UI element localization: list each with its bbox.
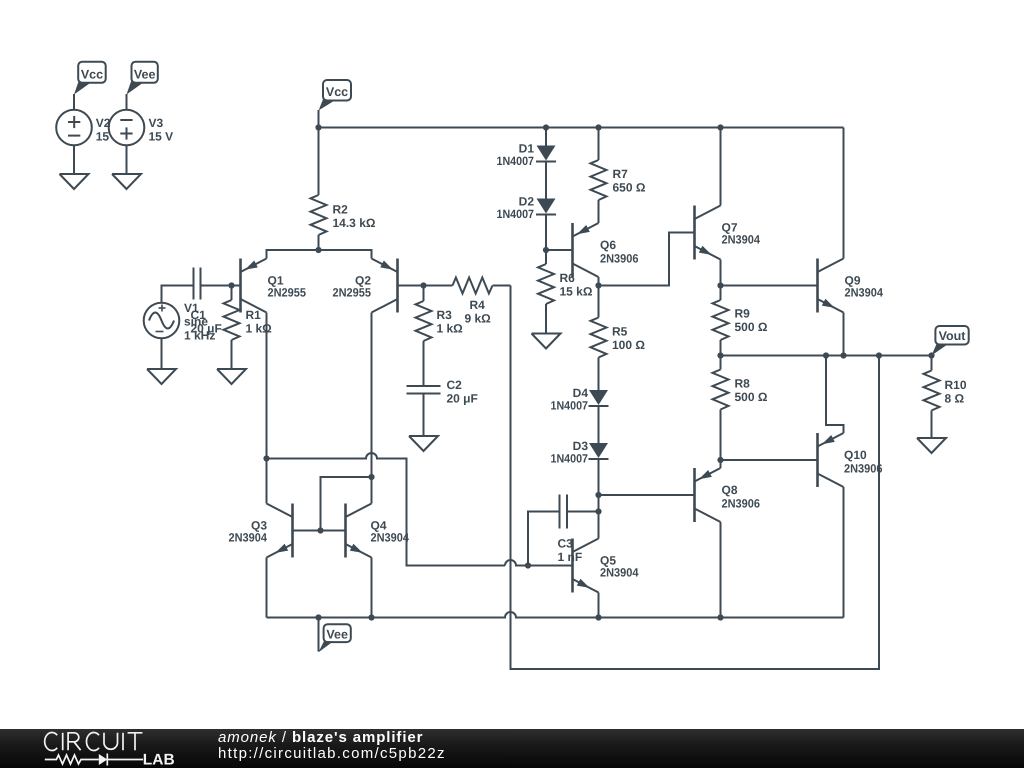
node junction: Q5 emitter/Vee rail bbox=[595, 614, 601, 620]
resistor R2 bbox=[311, 128, 327, 251]
resistor R8 bbox=[713, 356, 729, 461]
wire Q6 collector riser bbox=[598, 277, 600, 286]
svg-text:2N3904: 2N3904 bbox=[229, 531, 268, 545]
svg-text:C1: C1 bbox=[191, 308, 207, 322]
svg-text:R2: R2 bbox=[333, 203, 349, 217]
svg-text:1N4007: 1N4007 bbox=[497, 207, 535, 221]
svg-text:2N3906: 2N3906 bbox=[844, 462, 883, 476]
node junction: Q9 emitter/output bbox=[840, 352, 846, 358]
svg-text:R1: R1 bbox=[246, 308, 262, 322]
resistor R9 bbox=[713, 286, 729, 356]
node junction: C3 right plate tie bbox=[595, 508, 601, 514]
node junction: feedback/output bbox=[876, 352, 882, 358]
svg-text:2N3904: 2N3904 bbox=[722, 233, 761, 247]
node junction: Q4 collector tie bbox=[368, 474, 374, 480]
svg-text:1N4007: 1N4007 bbox=[551, 398, 589, 412]
wire D2 to R6/Q6 base bbox=[545, 215, 547, 251]
transistor Q5 (NPN 2N3904) bbox=[573, 539, 599, 593]
net flag Vout bbox=[932, 326, 969, 356]
svg-text:1 kΩ: 1 kΩ bbox=[437, 322, 464, 336]
svg-text:Q6: Q6 bbox=[600, 238, 616, 252]
transistor Q2 (PNP 2N2955) bbox=[372, 259, 398, 313]
resistor R6 bbox=[538, 250, 554, 334]
node junction: Q6 collector/R5 bbox=[595, 282, 601, 288]
svg-text:R10: R10 bbox=[945, 378, 967, 392]
node junction: Q2 base/R3/R4 bbox=[420, 282, 426, 288]
svg-text:500 Ω: 500 Ω bbox=[735, 320, 768, 334]
wire Q6 base bbox=[546, 249, 573, 251]
svg-text:8 Ω: 8 Ω bbox=[945, 392, 965, 406]
ground (below R10) bbox=[917, 438, 946, 453]
svg-text:C3: C3 bbox=[558, 537, 574, 551]
wire Q1-Q2 emitter rail bbox=[267, 250, 372, 259]
wire V3 top lead bbox=[126, 94, 128, 110]
node junction: Vout flag/R10 bbox=[928, 352, 934, 358]
resistor R5 bbox=[591, 286, 607, 391]
ground (below R1) bbox=[217, 369, 246, 384]
voltage source V3 bbox=[109, 110, 145, 146]
wire V1 bottom lead bbox=[161, 338, 163, 369]
wire Q8 collector riser bbox=[720, 522, 722, 618]
wire V3 bottom lead bbox=[126, 145, 128, 174]
svg-text:15: 15 bbox=[96, 130, 110, 144]
transistor Q8 (PNP 2N3906) bbox=[695, 468, 721, 522]
ground (below V3) bbox=[112, 174, 141, 189]
svg-text:C2: C2 bbox=[447, 378, 463, 392]
svg-text:650 Ω: 650 Ω bbox=[613, 181, 646, 195]
resistor R1 bbox=[224, 286, 240, 370]
svg-text:9 kΩ: 9 kΩ bbox=[465, 312, 492, 326]
node junction: C3/Q5 base bbox=[525, 562, 531, 568]
svg-text:20 μF: 20 μF bbox=[191, 322, 222, 336]
diode D1 (1N4007) bbox=[536, 146, 556, 162]
svg-text:2N2955: 2N2955 bbox=[333, 286, 372, 300]
svg-text:Vee: Vee bbox=[326, 627, 348, 641]
svg-text:Vcc: Vcc bbox=[81, 67, 103, 81]
svg-text:100 Ω: 100 Ω bbox=[612, 338, 645, 352]
wire Q9 emitter riser bbox=[843, 313, 845, 356]
wire Q6 collector to Q7 base bbox=[599, 233, 695, 286]
resistor R10 bbox=[924, 356, 940, 439]
capacitor C2 bbox=[407, 386, 441, 394]
transistor Q9 (NPN 2N3904) bbox=[818, 259, 844, 313]
svg-text:R8: R8 bbox=[735, 377, 751, 391]
diode D3 (1N4007) bbox=[589, 443, 609, 459]
capacitor C3 bbox=[560, 495, 568, 529]
wire C3 left plate to Q5 base bbox=[528, 512, 560, 566]
svg-text:LAB: LAB bbox=[143, 752, 175, 768]
svg-text:2N3906: 2N3906 bbox=[722, 497, 761, 511]
diode D2 (1N4007) bbox=[536, 199, 556, 215]
node junction: Q4 emitter/Vee rail bbox=[368, 614, 374, 620]
ground (below R6) bbox=[532, 334, 561, 349]
wire Q1 collector bus (with hop over Q2-Q4 wire) bbox=[267, 453, 506, 565]
transistor Q10 (PNP 2N3906) bbox=[818, 433, 844, 487]
svg-text:2N3904: 2N3904 bbox=[600, 566, 639, 580]
svg-text:1N4007: 1N4007 bbox=[551, 451, 589, 465]
wire Vee rail (with hop over feedback wire) bbox=[267, 612, 844, 618]
svg-text:R3: R3 bbox=[437, 308, 453, 322]
CircuitLab title bar bbox=[0, 729, 1024, 768]
svg-text:R5: R5 bbox=[612, 325, 628, 339]
svg-text:2N3904: 2N3904 bbox=[371, 531, 410, 545]
wire Q4 emitter riser bbox=[371, 558, 373, 618]
wire Q7 collector riser bbox=[720, 128, 722, 206]
svg-text:500 Ω: 500 Ω bbox=[735, 390, 768, 404]
svg-text:R9: R9 bbox=[735, 307, 751, 321]
ground (below V2) bbox=[60, 174, 89, 189]
node junction: Vcc/R2 bbox=[315, 124, 321, 130]
wire D3 down to Q5 collector bbox=[598, 459, 600, 539]
ground (below V1) bbox=[147, 369, 176, 384]
svg-text:14.3 kΩ: 14.3 kΩ bbox=[333, 216, 376, 230]
svg-text:15 kΩ: 15 kΩ bbox=[560, 285, 593, 299]
wire Q5 emitter riser bbox=[598, 593, 600, 618]
svg-text:Vout: Vout bbox=[939, 329, 967, 343]
wire output rail (Vout net) bbox=[721, 355, 932, 357]
capacitor C1 bbox=[194, 268, 201, 300]
wire D4 to D3 bbox=[598, 406, 600, 443]
diode D4 (1N4007) bbox=[589, 390, 609, 406]
node junction: R2/emitter rail bbox=[315, 247, 321, 253]
node junction: R9/R8/output rail bbox=[717, 352, 723, 358]
net flag Vcc (on V2) bbox=[74, 62, 106, 95]
voltage source V2 bbox=[56, 110, 92, 146]
wire Q9 collector riser to Vcc rail bbox=[843, 128, 845, 259]
net flag Vee (on V3) bbox=[127, 62, 158, 95]
wire Q3 emitter riser bbox=[266, 558, 268, 618]
svg-text:Q10: Q10 bbox=[844, 448, 867, 462]
wire Q1 collector to mirror bbox=[266, 313, 268, 459]
node junction: Vcc/D1 bbox=[543, 124, 549, 130]
svg-text:R4: R4 bbox=[470, 298, 486, 312]
svg-text:15 V: 15 V bbox=[149, 130, 174, 144]
wire base bus riser to Q4 collector bbox=[321, 477, 372, 531]
wire C2 bottom lead bbox=[423, 394, 425, 437]
wire D1 to D2 bbox=[545, 162, 547, 199]
svg-text:1N4007: 1N4007 bbox=[497, 154, 535, 168]
svg-text:Q8: Q8 bbox=[722, 483, 738, 497]
resistor R7 bbox=[591, 128, 607, 224]
wire Q3-Q4 base bus bbox=[293, 530, 346, 532]
node junction: Vee flag tie bbox=[315, 614, 321, 620]
node junction: Q1 collector/Q3 collector/bus bbox=[263, 455, 269, 461]
transistor Q1 (PNP 2N2955) bbox=[241, 259, 267, 313]
svg-text:1 kΩ: 1 kΩ bbox=[246, 322, 273, 336]
svg-text:2N3904: 2N3904 bbox=[845, 286, 884, 300]
wire C3 right plate bbox=[567, 511, 599, 513]
voltage source V1 (sine) bbox=[144, 303, 180, 339]
wire Q2 base to R3/R4 bbox=[398, 285, 453, 287]
node junction: D3/Q8 base wire bbox=[595, 492, 601, 498]
wire Q8 emitter riser bbox=[720, 460, 722, 468]
node junction: Vcc/R7 bbox=[595, 124, 601, 130]
wire feedback: R4 right end down to bottom bbox=[511, 286, 880, 670]
wire V1 top to C1 bbox=[162, 286, 194, 303]
wire V2 bottom lead bbox=[73, 145, 75, 174]
wire Q3 collector riser bbox=[266, 459, 268, 504]
wire D3 node to Q8 base bbox=[599, 494, 695, 496]
node junction: C1/R1/Q1 base bbox=[228, 282, 234, 288]
wire Q10 collector riser bbox=[843, 487, 845, 618]
wire Q9 base bbox=[721, 285, 818, 287]
wire top Vcc rail bbox=[319, 127, 844, 129]
wire C1 to Q1 base bbox=[201, 285, 241, 287]
wire Q10 emitter jog to output rail bbox=[826, 356, 844, 434]
resistor R4 bbox=[453, 278, 511, 294]
node junction: R8/Q8 emitter/Q10 base bbox=[717, 457, 723, 463]
resistor R3 bbox=[416, 286, 432, 387]
transistor Q3 (NPN 2N3904, mirrored) bbox=[267, 504, 293, 558]
svg-text:R7: R7 bbox=[613, 167, 629, 181]
svg-text:2N3906: 2N3906 bbox=[600, 252, 639, 266]
transistor Q6 (PNP 2N3906) bbox=[573, 223, 599, 277]
wire Q2 collector down to Q4 bbox=[371, 313, 373, 504]
svg-text:2N2955: 2N2955 bbox=[268, 286, 307, 300]
transistor Q4 (NPN 2N3904) bbox=[346, 504, 372, 558]
ground (below C2) bbox=[409, 436, 438, 451]
wire Q5 base segment bbox=[505, 560, 573, 566]
transistor Q7 (NPN 2N3904) bbox=[695, 206, 721, 260]
wire Vcc to D1 bbox=[545, 128, 547, 146]
node junction: Vcc/Q7 collector bbox=[717, 124, 723, 130]
node junction: Q7 emitter/R9/Q9 base bbox=[717, 282, 723, 288]
node junction: base bus bbox=[317, 527, 323, 533]
svg-text:20 μF: 20 μF bbox=[447, 392, 478, 406]
svg-text:V3: V3 bbox=[149, 116, 164, 130]
node junction: Q10 emitter/output bbox=[823, 352, 829, 358]
svg-text:Vcc: Vcc bbox=[326, 85, 348, 99]
net flag Vcc (main rail) bbox=[319, 80, 351, 110]
svg-text:Vee: Vee bbox=[134, 67, 156, 81]
svg-text:1 nF: 1 nF bbox=[558, 550, 583, 564]
net flag Vee (bottom rail) bbox=[319, 618, 351, 653]
wire Q7 emitter riser bbox=[720, 260, 722, 286]
CircuitLab logo bbox=[0, 729, 190, 768]
wire V2 top lead bbox=[73, 94, 75, 110]
node junction: D2/R6/Q6 base bbox=[543, 247, 549, 253]
wire Q10 base bbox=[721, 459, 818, 461]
title bar text bbox=[218, 730, 446, 761]
node junction: Q8 collector/Vee rail bbox=[717, 614, 723, 620]
wire Vcc flag tail to rail bbox=[318, 110, 320, 128]
